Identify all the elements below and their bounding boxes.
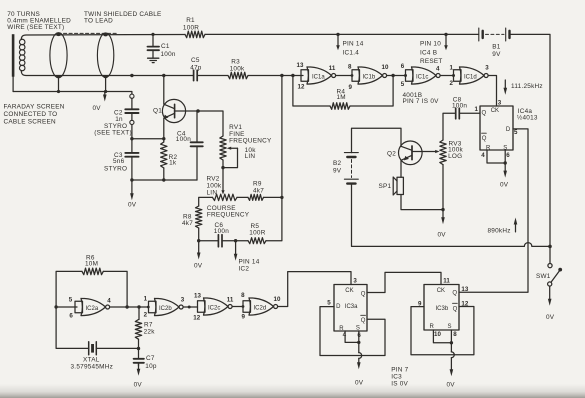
svg-text:IC3: IC3	[391, 373, 402, 380]
ground 0V arrow (C7)	[137, 363, 141, 376]
svg-text:B1: B1	[492, 43, 501, 50]
wire B2 - to bottom rail	[352, 184, 525, 247]
resistor R5	[248, 238, 266, 244]
node tank-Q1 collector	[162, 74, 165, 77]
svg-text:Q: Q	[453, 306, 458, 312]
svg-text:9: 9	[242, 313, 246, 320]
svg-text:FREQUENCY: FREQUENCY	[207, 212, 250, 219]
speaker SP1	[393, 177, 403, 195]
svg-text:4: 4	[107, 297, 111, 304]
label 70 TURNS 0.4mm ENAMELLED WIRE (SEE TEXT)	[7, 11, 71, 31]
potentiometer RV1	[220, 136, 226, 160]
wire input node to IC2a	[56, 306, 77, 308]
svg-text:IC2c: IC2c	[208, 306, 220, 312]
svg-text:100n: 100n	[452, 102, 467, 109]
svg-text:13: 13	[194, 292, 201, 299]
node RV3/SP1/0V	[441, 208, 444, 211]
node IC1b output / R4	[391, 74, 394, 77]
svg-text:CK: CK	[437, 288, 445, 294]
annotation arrow PIN 14 IC2	[234, 241, 238, 261]
svg-text:0V: 0V	[438, 232, 447, 239]
ground chassis symbol (C1)	[148, 58, 159, 62]
wire IC3a R,S tie	[345, 331, 359, 342]
svg-text:S: S	[448, 324, 452, 330]
wire coil top to rail	[21, 35, 185, 40]
svg-text:LIN: LIN	[207, 189, 218, 196]
node IC1c input	[404, 74, 407, 77]
node Q1 base / C4	[196, 109, 200, 113]
svg-text:IC1d: IC1d	[464, 75, 477, 81]
wire IC1d out to IC4a CK	[488, 76, 496, 107]
NOR gate IC1a	[301, 67, 336, 84]
annotation arrow PIN 14 IC1.4	[336, 36, 340, 50]
svg-text:100n: 100n	[161, 51, 176, 58]
NOR gate IC1d	[454, 67, 489, 84]
cable screen dashed wire	[58, 32, 119, 34]
svg-text:13: 13	[297, 62, 304, 69]
svg-text:1: 1	[144, 296, 148, 303]
wire B2 + to Q2 collector	[352, 128, 402, 152]
resistor R2	[161, 139, 167, 180]
wire faraday bar to screen line	[12, 77, 14, 92]
wire IC3b R,S tie	[433, 330, 451, 343]
svg-text:0V: 0V	[546, 314, 555, 321]
wire IC3a Q to IC3b CK	[367, 272, 441, 292]
flip-flop IC3b box	[424, 285, 459, 331]
svg-text:10: 10	[382, 64, 389, 71]
connector circle above C2	[130, 94, 134, 98]
transistor Q1	[162, 76, 198, 139]
resistor R7	[135, 307, 141, 349]
svg-text:IC1c: IC1c	[416, 75, 428, 81]
svg-text:PIN 7: PIN 7	[391, 366, 408, 373]
wire C6 to R5	[222, 240, 248, 242]
svg-text:Q: Q	[361, 318, 366, 324]
battery B2	[344, 153, 358, 184]
annotation arrow 111.25kHz	[504, 80, 508, 95]
resistor R6 feedback	[56, 268, 127, 307]
capacitor C5	[194, 70, 198, 80]
wire RV3 bottom to 0V node	[442, 165, 444, 210]
svg-text:SW1: SW1	[536, 273, 551, 280]
svg-text:Q2: Q2	[387, 150, 396, 157]
potentiometer RV2 track	[213, 194, 238, 200]
svg-text:PIN 7 IS 0V: PIN 7 IS 0V	[403, 98, 440, 105]
svg-text:PIN 14: PIN 14	[343, 41, 364, 48]
svg-text:8: 8	[348, 63, 352, 70]
node rail PIN14 IC1	[336, 33, 339, 36]
ground 0V arrow (IC3b)	[450, 343, 455, 376]
svg-text:PIN 10: PIN 10	[420, 41, 441, 48]
svg-text:IC3a: IC3a	[345, 304, 358, 310]
annotation arrow 890kHz	[514, 218, 518, 232]
wire screen drop loop1	[58, 78, 60, 92]
node screen-loop2	[104, 90, 107, 93]
annotation arrow PIN 10 IC4 B RESET	[444, 36, 448, 50]
wire IC2a out to IC2b in	[110, 306, 149, 308]
wire IC2d out to IC3a CK	[278, 272, 351, 307]
NOR gate IC2d	[243, 298, 278, 315]
svg-text:5: 5	[401, 81, 405, 88]
wire tank line (coil to IC1a input)	[132, 75, 303, 77]
svg-text:100n: 100n	[176, 136, 191, 143]
svg-text:Q: Q	[452, 291, 457, 297]
wire C2/C3 tap to emitter junction	[132, 138, 164, 140]
wire SP1 to 0V node	[401, 195, 443, 210]
svg-text:4: 4	[481, 152, 485, 159]
transistor Q2	[399, 141, 423, 165]
battery B1	[479, 28, 510, 41]
svg-text:10: 10	[274, 296, 281, 303]
ground 0V arrow (RV3)	[441, 210, 445, 225]
wire IC1c out to IC1d in	[440, 75, 453, 77]
node R6 right leg	[125, 305, 128, 308]
coil L1 core (faraday screen bar)	[12, 34, 15, 76]
wire IC3b Qbar to D loop	[411, 307, 474, 355]
svg-text:12: 12	[298, 84, 305, 91]
svg-text:IC1.4: IC1.4	[343, 49, 360, 56]
wire R8 bottom to C6 node	[199, 228, 219, 241]
svg-text:CK: CK	[491, 108, 499, 114]
svg-text:6: 6	[506, 152, 510, 159]
svg-text:100R: 100R	[249, 229, 265, 236]
wire riser to tank line	[281, 76, 283, 198]
svg-text:22k: 22k	[144, 328, 156, 335]
svg-text:0V: 0V	[194, 262, 203, 269]
node R8/C6/0V	[197, 239, 200, 242]
resistor R1	[185, 31, 205, 38]
wire IC1b out to IC1c in	[387, 75, 406, 77]
node rail/SW1	[548, 245, 552, 249]
svg-text:LOG: LOG	[448, 153, 462, 160]
coil L1 turns	[19, 39, 25, 71]
svg-text:IC2a: IC2a	[86, 306, 99, 312]
svg-text:R9: R9	[253, 180, 262, 187]
ground 0V arrow (SW1)	[548, 286, 552, 306]
svg-text:TO LEAD: TO LEAD	[84, 17, 113, 24]
svg-text:C5: C5	[191, 57, 200, 64]
wire IC4a D to IC3b Q (with hop over rail)	[459, 129, 528, 292]
ground 0V arrow (IC3a)	[357, 342, 362, 369]
NOR gate IC2b	[149, 298, 184, 315]
node C3 bottom 0V line	[130, 178, 133, 181]
node RV1 bottom / wiper tie	[221, 166, 224, 169]
svg-text:5n6: 5n6	[113, 158, 125, 165]
svg-text:890kHz: 890kHz	[488, 228, 511, 235]
NOR gate IC2c	[198, 298, 233, 315]
svg-text:4k7: 4k7	[253, 187, 264, 194]
svg-text:Q: Q	[482, 136, 487, 142]
resistor R4 feedback	[293, 76, 393, 110]
ground 0V arrow (R8)	[197, 241, 201, 260]
wire C2 to C3	[131, 125, 133, 153]
node IC2a input	[54, 305, 57, 308]
svg-text:10: 10	[434, 331, 441, 338]
svg-text:2: 2	[144, 312, 148, 319]
svg-text:STYRO: STYRO	[104, 165, 127, 172]
svg-text:FARADAY SCREEN: FARADAY SCREEN	[4, 104, 65, 111]
svg-text:5: 5	[69, 297, 73, 304]
potentiometer RV3	[440, 140, 446, 165]
svg-text:CONNECTED TO: CONNECTED TO	[4, 111, 58, 118]
svg-text:6: 6	[401, 63, 405, 70]
svg-text:R1: R1	[186, 17, 195, 24]
node screen-loop1	[57, 90, 60, 93]
wire IC4a R,S to 0V	[487, 150, 505, 163]
svg-text:R: R	[430, 324, 435, 330]
svg-text:3.579545MHz: 3.579545MHz	[71, 363, 114, 370]
svg-text:PIN 14: PIN 14	[239, 259, 260, 266]
wire RV2 right to R9	[237, 196, 248, 198]
node C2/C3 to Q1 emitter	[130, 137, 133, 140]
capacitor C7	[134, 349, 144, 367]
svg-text:1: 1	[475, 106, 479, 113]
wire RV1 bottom	[222, 160, 224, 168]
wire coil bottom to tank line	[21, 71, 132, 76]
node IC1a input junction	[291, 74, 294, 77]
svg-text:WIRE (SEE TEXT): WIRE (SEE TEXT)	[7, 24, 64, 31]
capacitor C2	[125, 98, 138, 120]
ground 0V arrow (screen line)	[103, 92, 107, 102]
svg-text:100R: 100R	[183, 24, 199, 31]
capacitor C8	[443, 108, 480, 140]
svg-text:Q: Q	[482, 111, 487, 117]
node IC2b input	[147, 306, 150, 309]
svg-text:0V: 0V	[93, 105, 102, 112]
wire screen drop loop2	[105, 78, 107, 92]
wire IC2b out to IC2c in	[183, 306, 197, 308]
svg-text:100n: 100n	[214, 228, 229, 235]
svg-text:(SEE TEXT): (SEE TEXT)	[94, 130, 132, 137]
node IC2d input	[242, 305, 245, 308]
svg-text:13: 13	[461, 286, 468, 293]
capacitor C4	[191, 111, 203, 180]
wire 0V line C3 to C4	[132, 179, 197, 181]
label FARADAY SCREEN CONNECTED TO CABLE SCREEN	[4, 104, 65, 126]
label TWIN SHIELDED CABLE TO LEAD	[84, 11, 162, 24]
node tank-C2	[130, 74, 133, 77]
wire IC3a Qbar to D loop	[320, 307, 385, 356]
capacitor C1	[148, 34, 160, 58]
svg-text:3: 3	[181, 297, 185, 304]
svg-text:8: 8	[453, 331, 457, 338]
node Q1 emitter / R2 top	[162, 137, 165, 140]
node tank-RV2 network riser	[280, 74, 283, 77]
junction blobs cable loop crossings	[56, 33, 107, 78]
svg-text:0V: 0V	[128, 202, 137, 209]
svg-text:FREQUENCY: FREQUENCY	[229, 137, 272, 144]
svg-text:0V: 0V	[500, 182, 509, 189]
resistor R8	[196, 206, 202, 228]
svg-text:8: 8	[241, 292, 245, 299]
svg-text:LIN: LIN	[245, 153, 256, 160]
node R9/R5 riser	[280, 196, 283, 199]
node IC1d input	[452, 74, 455, 77]
svg-text:47p: 47p	[190, 64, 202, 71]
svg-text:C1: C1	[161, 43, 170, 50]
wire RV2 left end to R8	[199, 197, 213, 206]
svg-text:3: 3	[485, 65, 489, 72]
svg-text:RV1: RV1	[229, 124, 242, 131]
cable loop 2	[97, 33, 113, 78]
RV1 wiper	[223, 147, 238, 168]
svg-text:10p: 10p	[145, 363, 157, 370]
node PIN14 IC2 tap	[234, 239, 237, 242]
svg-text:Q1: Q1	[153, 108, 162, 115]
node IC4a S/R tie	[504, 161, 507, 164]
wire IC2c out to IC2d in	[232, 306, 243, 308]
svg-text:Q: Q	[361, 291, 366, 297]
ground 0V arrow (IC4a)	[503, 163, 507, 178]
crystal XTAL	[56, 307, 138, 355]
flip-flop IC4a box	[480, 106, 513, 150]
wire R5 to riser corner	[266, 197, 282, 240]
svg-text:C7: C7	[146, 355, 155, 362]
svg-text:11: 11	[329, 65, 336, 72]
svg-text:1: 1	[450, 65, 454, 72]
NOR gate IC2a	[75, 298, 110, 315]
flip-flop IC3a box	[334, 285, 367, 332]
wire RV1 to RV2 wiper arrow	[221, 168, 224, 195]
svg-text:SP1: SP1	[379, 183, 392, 190]
svg-text:IC4 B: IC4 B	[420, 49, 437, 56]
svg-text:9V: 9V	[492, 51, 501, 58]
RV3 wiper from Q2 base	[412, 150, 440, 153]
svg-text:10M: 10M	[85, 260, 98, 267]
svg-text:B2: B2	[333, 160, 342, 167]
svg-text:CK: CK	[345, 288, 353, 294]
svg-text:100k: 100k	[230, 65, 245, 72]
connector circle below C2	[130, 120, 134, 124]
svg-text:½4013: ½4013	[517, 114, 538, 122]
wire screen line	[13, 92, 132, 95]
NOR gate IC1c	[406, 67, 441, 84]
svg-text:4k7: 4k7	[182, 220, 193, 227]
wire supply rail R1 to battery B1	[205, 33, 479, 35]
svg-text:IC2d: IC2d	[254, 306, 267, 312]
svg-text:D: D	[336, 304, 341, 310]
svg-text:IC2b: IC2b	[159, 306, 172, 312]
resistor R3	[228, 72, 248, 79]
wire R9 to riser node	[264, 196, 282, 198]
label PIN 7 IC3 IS 0V	[391, 366, 408, 387]
node IC3a S/R tie	[357, 341, 360, 344]
svg-text:9V: 9V	[333, 167, 342, 174]
NOR gate IC1b	[352, 67, 387, 84]
node IC3b S/R tie	[450, 341, 453, 344]
svg-text:IC3b: IC3b	[436, 306, 449, 312]
svg-text:IC1a: IC1a	[312, 75, 325, 81]
svg-text:2: 2	[450, 80, 454, 87]
wire IC1a out to IC1b in	[336, 75, 352, 77]
node R7 top	[137, 305, 140, 308]
svg-text:11: 11	[443, 277, 450, 284]
svg-text:IC1b: IC1b	[363, 75, 376, 81]
node rail-C1	[151, 33, 154, 36]
wire B1 to right rail corner	[510, 34, 551, 246]
svg-text:RESET: RESET	[420, 58, 443, 65]
bottom scan fade	[0, 384, 585, 398]
svg-text:100k: 100k	[207, 182, 222, 189]
capacitor C6	[218, 235, 222, 247]
wire rail hop to SW node	[532, 245, 550, 247]
svg-text:111.25kHz: 111.25kHz	[511, 83, 543, 90]
rail hop over D line	[524, 243, 532, 247]
svg-text:1M: 1M	[337, 94, 346, 101]
svg-text:D: D	[506, 127, 511, 133]
ground 0V arrow (C3 chain)	[130, 180, 134, 200]
svg-text:CABLE SCREEN: CABLE SCREEN	[4, 118, 57, 125]
svg-text:IC2: IC2	[239, 266, 250, 273]
resistor R9	[248, 194, 264, 200]
svg-text:12: 12	[193, 315, 200, 322]
wire Q2 emitter to SP1	[400, 164, 402, 177]
svg-text:11: 11	[227, 297, 234, 304]
cable loop 1	[50, 33, 67, 78]
node rail PIN10 IC4	[444, 33, 447, 36]
node R2 bottom	[162, 178, 165, 181]
node IC2c input	[188, 306, 191, 309]
svg-text:1k: 1k	[169, 160, 177, 167]
switch SW1	[548, 246, 562, 286]
capacitor C3	[125, 153, 138, 180]
svg-text:9: 9	[349, 84, 353, 91]
svg-text:RV2: RV2	[207, 175, 220, 182]
svg-text:3: 3	[498, 100, 502, 107]
node R7/XTAL/C7	[137, 347, 140, 350]
svg-text:5: 5	[327, 300, 331, 307]
wire base line to RV1	[198, 111, 223, 136]
svg-text:6: 6	[69, 312, 73, 319]
node IC1b input	[351, 74, 354, 77]
svg-text:4: 4	[436, 66, 440, 73]
svg-text:5: 5	[514, 129, 518, 136]
svg-text:3: 3	[353, 278, 357, 285]
